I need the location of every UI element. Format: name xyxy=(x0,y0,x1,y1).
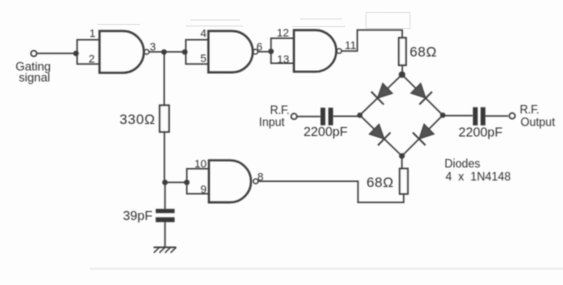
label: RF Input xyxy=(259,105,289,129)
wire: lower node to bracket node xyxy=(165,181,187,183)
wire: gate U1B output pin 6 to node xyxy=(258,51,271,53)
label: Diodes 4 x 1N4148 xyxy=(445,159,511,184)
capacitor C1 input 2200pF xyxy=(323,108,331,126)
svg-text:68Ω: 68Ω xyxy=(367,174,394,190)
diode D2 top right xyxy=(409,82,432,105)
svg-text:6: 6 xyxy=(256,41,262,53)
svg-text:Input: Input xyxy=(259,117,285,129)
wire: bridge top node to right node xyxy=(402,75,443,116)
diode D3 bottom left xyxy=(368,123,391,146)
svg-text:1: 1 xyxy=(89,28,95,40)
svg-text:3: 3 xyxy=(150,41,156,53)
label: Gating signal xyxy=(16,60,51,85)
svg-text:Diodes: Diodes xyxy=(445,159,481,171)
wire: bridge right node to bottom node xyxy=(402,115,443,156)
svg-text:Output: Output xyxy=(521,117,556,129)
wire: gate U1A output pin 3 to node xyxy=(149,51,185,53)
wire: gate U1D output pin 8 right and up to bottom 68 ohm resistor xyxy=(258,181,403,202)
wire: RF input terminal to capacitor xyxy=(297,116,320,118)
ground xyxy=(154,247,177,252)
wire: bracket to pins 4 and 5 xyxy=(186,40,209,64)
svg-text:10: 10 xyxy=(194,158,206,170)
resistor R1 68 ohm top xyxy=(399,38,406,65)
svg-text:11: 11 xyxy=(345,40,356,52)
wire: gating terminal to input node xyxy=(37,52,76,54)
wire: output capacitor to RF output terminal xyxy=(486,115,509,117)
wire: bridge right node to output capacitor xyxy=(443,115,473,117)
svg-text:4 x 1N4148: 4 x 1N4148 xyxy=(446,171,511,183)
svg-text:2200pF: 2200pF xyxy=(304,124,348,139)
wire: 39pF capacitor to ground xyxy=(164,222,166,247)
wire: node to 330 ohm resistor xyxy=(163,52,165,105)
junction node at gating input xyxy=(73,51,79,57)
wire: top 68 ohm resistor to bridge top node xyxy=(401,65,403,74)
svg-text:68Ω: 68Ω xyxy=(410,44,437,60)
wire: 330 ohm resistor down to lower node xyxy=(163,132,165,183)
svg-text:8: 8 xyxy=(257,171,263,183)
wire: bracket to pins 12 and 13 xyxy=(271,38,294,63)
wire: bridge left node to bottom node xyxy=(360,115,402,156)
wire: bracket to pins 10 and 9 xyxy=(187,169,209,194)
junction node 330 ohm / 39pF xyxy=(162,180,168,186)
junction node bridge right xyxy=(440,113,445,118)
svg-text:signal: signal xyxy=(19,71,50,85)
svg-text:330Ω: 330Ω xyxy=(120,111,156,127)
diode D4 bottom right xyxy=(413,123,436,146)
wire: bridge top node to left node xyxy=(360,75,402,116)
junction node at gate U1D input xyxy=(184,180,190,186)
svg-text:R.F.: R.F. xyxy=(520,105,539,117)
capacitor C2 output 2200pF xyxy=(475,107,483,125)
wire: input bracket to pins 1 and 2 xyxy=(77,40,99,64)
junction node at gate U1B input xyxy=(182,49,188,55)
wire: input capacitor to bridge left node xyxy=(333,115,360,117)
svg-text:9: 9 xyxy=(200,184,206,196)
resistor R2 330 ohm xyxy=(160,105,169,132)
svg-text:R.F.: R.F. xyxy=(270,105,289,117)
svg-text:12: 12 xyxy=(277,28,289,40)
svg-text:5: 5 xyxy=(200,53,206,65)
terminal: Gating signal input xyxy=(31,51,37,57)
label: RF Output xyxy=(520,105,556,130)
nand gate U1C xyxy=(294,30,342,72)
terminal: RF output xyxy=(509,113,515,119)
svg-text:13: 13 xyxy=(277,54,289,66)
nand gate U1B xyxy=(208,31,257,72)
wire: gate U1C output pin 11 up and right to 68 ohm resistor xyxy=(342,30,402,51)
wire: node down to 39pF capacitor xyxy=(164,182,166,209)
diode D1 top left xyxy=(371,82,394,105)
wire: bridge bottom node to bottom 68 ohm resistor xyxy=(401,156,403,169)
svg-text:2: 2 xyxy=(89,53,95,65)
terminal: RF input xyxy=(291,114,297,120)
junction node pin3 / 330 ohm xyxy=(161,49,167,55)
capacitor C3 39pF xyxy=(156,211,175,220)
nand gate U1D xyxy=(209,160,258,202)
svg-text:39pF: 39pF xyxy=(123,208,153,223)
svg-text:4: 4 xyxy=(200,28,206,40)
junction node bridge bottom xyxy=(399,153,405,159)
junction node at gate U1C input xyxy=(268,49,274,55)
junction node bridge top xyxy=(399,71,406,78)
junction node bridge left xyxy=(357,113,362,118)
nand gate U1A xyxy=(100,31,150,73)
svg-text:2200pF: 2200pF xyxy=(459,125,503,140)
resistor R3 68 ohm bottom xyxy=(400,169,408,194)
